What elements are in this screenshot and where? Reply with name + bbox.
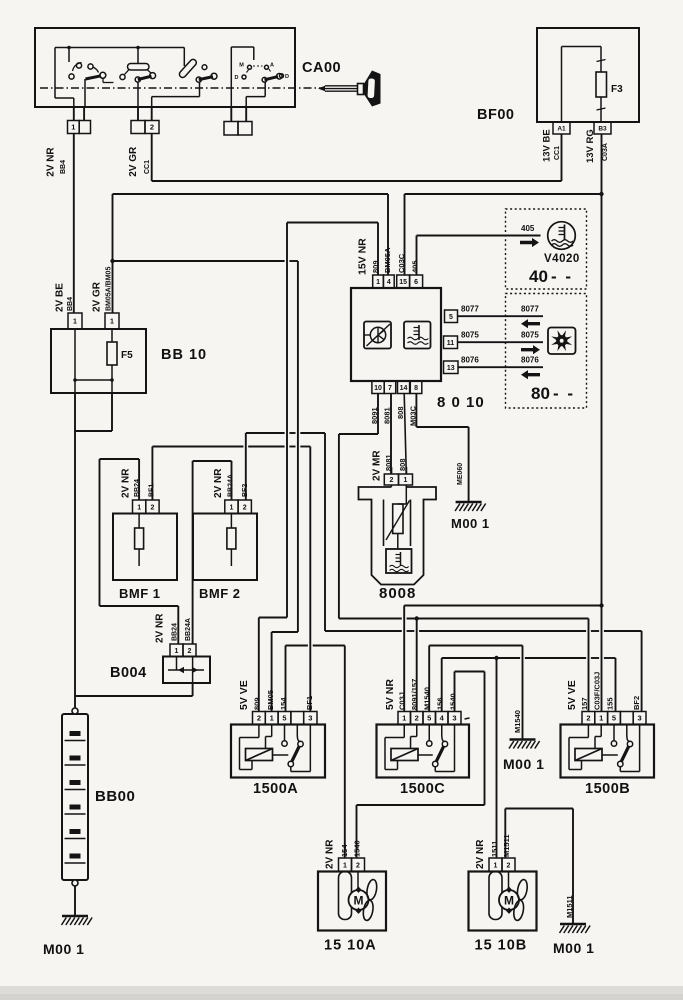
svg-text:1: 1	[73, 319, 77, 326]
svg-text:15 10A: 15 10A	[324, 938, 377, 954]
svg-text:5: 5	[612, 714, 616, 723]
svg-text:2: 2	[188, 648, 192, 655]
svg-text:2: 2	[586, 714, 590, 723]
svg-text:809: 809	[371, 260, 380, 273]
svg-text:1: 1	[229, 504, 233, 511]
svg-text:B004: B004	[110, 665, 147, 681]
svg-text:2V NR: 2V NR	[325, 839, 336, 869]
svg-text:M1540: M1540	[423, 687, 432, 710]
svg-text:M00 1: M00 1	[43, 941, 84, 957]
svg-text:1: 1	[343, 862, 347, 869]
svg-text:C03J: C03J	[398, 692, 407, 710]
svg-text:5V NR: 5V NR	[384, 679, 396, 710]
svg-text:C03C: C03C	[397, 253, 406, 273]
svg-text:7: 7	[388, 385, 392, 392]
svg-text:40: 40	[529, 267, 548, 286]
svg-text:8008: 8008	[379, 585, 416, 602]
svg-text:M: M	[239, 63, 244, 69]
svg-text:BB4: BB4	[67, 297, 74, 311]
svg-text:405: 405	[411, 260, 420, 273]
svg-text:BB24A: BB24A	[185, 618, 192, 641]
svg-text:- -: - -	[551, 267, 573, 286]
svg-text:C03A: C03A	[602, 143, 609, 161]
svg-text:2V GR: 2V GR	[92, 281, 103, 312]
svg-text:155: 155	[606, 697, 615, 710]
svg-text:1: 1	[137, 504, 141, 511]
svg-text:1: 1	[71, 123, 75, 132]
svg-text:M1511: M1511	[565, 895, 574, 918]
svg-text:1: 1	[110, 319, 114, 326]
svg-text:D: D	[235, 75, 239, 81]
svg-text:8075: 8075	[521, 331, 539, 340]
svg-text:F3: F3	[611, 84, 623, 95]
svg-text:1: 1	[404, 477, 408, 484]
svg-text:1500C: 1500C	[400, 781, 445, 797]
svg-text:5: 5	[449, 314, 453, 321]
svg-text:2V NR: 2V NR	[46, 147, 57, 177]
svg-text:1: 1	[270, 714, 274, 723]
svg-text:2V NR: 2V NR	[475, 839, 486, 869]
svg-text:BB4: BB4	[60, 160, 67, 174]
svg-text:1: 1	[376, 279, 380, 286]
svg-text:3: 3	[638, 714, 642, 723]
svg-text:2: 2	[257, 714, 261, 723]
svg-text:BM05A/BM05: BM05A/BM05	[106, 267, 113, 311]
svg-text:5V VE: 5V VE	[566, 680, 578, 710]
svg-text:CA00: CA00	[302, 60, 341, 76]
svg-text:BF00: BF00	[477, 107, 514, 123]
svg-text:M1540: M1540	[513, 710, 522, 733]
svg-text:BM05: BM05	[266, 690, 275, 710]
svg-text:M00 1: M00 1	[451, 516, 490, 531]
svg-text:2V NR: 2V NR	[155, 613, 166, 643]
svg-text:BB24: BB24	[171, 623, 178, 641]
svg-text:2: 2	[356, 862, 360, 869]
svg-text:1: 1	[494, 862, 498, 869]
svg-text:2V MR: 2V MR	[372, 450, 383, 481]
svg-text:2: 2	[150, 123, 154, 132]
svg-text:5V VE: 5V VE	[238, 680, 250, 710]
svg-text:M1511: M1511	[502, 834, 511, 857]
svg-text:5: 5	[427, 714, 431, 723]
svg-text:15: 15	[399, 279, 407, 286]
svg-text:2V BE: 2V BE	[55, 283, 66, 312]
svg-text:8076: 8076	[521, 356, 539, 365]
svg-text:1500B: 1500B	[585, 781, 630, 797]
svg-text:11: 11	[447, 340, 455, 347]
svg-text:154: 154	[279, 697, 288, 710]
svg-text:C03F/C03J: C03F/C03J	[593, 672, 602, 710]
svg-text:M00 1: M00 1	[503, 756, 544, 772]
svg-text:10: 10	[374, 385, 382, 392]
svg-text:A1: A1	[557, 125, 566, 132]
svg-text:2: 2	[415, 714, 419, 723]
svg-text:2V GR: 2V GR	[128, 146, 139, 177]
svg-text:M00 1: M00 1	[553, 940, 594, 956]
svg-text:BMF 1: BMF 1	[119, 586, 161, 601]
svg-text:1511: 1511	[490, 841, 499, 857]
svg-text:BF1: BF1	[305, 696, 314, 710]
svg-text:8075: 8075	[461, 331, 479, 340]
svg-text:D: D	[285, 74, 289, 80]
svg-text:ME060: ME060	[457, 463, 464, 485]
svg-text:2: 2	[389, 477, 393, 484]
svg-text:13V BE: 13V BE	[541, 129, 552, 162]
svg-text:2: 2	[243, 504, 247, 511]
svg-text:2V NR: 2V NR	[121, 468, 132, 498]
svg-text:BMF 2: BMF 2	[199, 586, 241, 601]
svg-text:8091/157: 8091/157	[410, 679, 419, 710]
svg-text:2: 2	[507, 862, 511, 869]
svg-text:8076: 8076	[461, 356, 479, 365]
svg-text:14: 14	[400, 385, 408, 392]
svg-text:13: 13	[447, 365, 455, 372]
svg-text:3: 3	[452, 714, 456, 723]
svg-text:B3: B3	[598, 125, 607, 132]
svg-text:M: M	[504, 894, 514, 908]
svg-text:1500A: 1500A	[253, 781, 298, 797]
svg-text:BB00: BB00	[95, 788, 135, 805]
svg-text:CC1: CC1	[144, 160, 151, 174]
svg-text:15V NR: 15V NR	[356, 238, 368, 275]
svg-text:154: 154	[340, 844, 349, 857]
svg-text:1: 1	[175, 648, 179, 655]
svg-text:5: 5	[282, 714, 286, 723]
svg-text:8077: 8077	[461, 305, 479, 314]
svg-text:156: 156	[436, 697, 445, 710]
svg-text:13V RG: 13V RG	[585, 129, 596, 163]
svg-text:M: M	[354, 894, 364, 908]
svg-text:1: 1	[402, 714, 406, 723]
svg-text:15 10B: 15 10B	[475, 938, 528, 954]
svg-text:- -: - -	[553, 384, 575, 403]
svg-text:1540: 1540	[353, 840, 362, 857]
svg-text:3: 3	[308, 714, 312, 723]
svg-text:4: 4	[387, 279, 391, 286]
svg-text:8: 8	[414, 385, 418, 392]
svg-text:BF2: BF2	[632, 696, 641, 710]
svg-text:2V NR: 2V NR	[213, 468, 224, 498]
svg-text:80: 80	[531, 384, 550, 403]
svg-text:BM05A: BM05A	[383, 247, 392, 273]
svg-text:A: A	[270, 63, 274, 69]
svg-text:405: 405	[521, 224, 535, 233]
svg-text:8 0 10: 8 0 10	[437, 394, 485, 411]
svg-text:808: 808	[398, 458, 407, 471]
svg-text:2: 2	[150, 504, 154, 511]
svg-text:V4020: V4020	[544, 253, 580, 265]
svg-text:809: 809	[253, 697, 262, 710]
svg-text:6: 6	[414, 279, 418, 286]
svg-text:F5: F5	[121, 350, 133, 361]
svg-text:157: 157	[580, 697, 589, 710]
svg-text:8081: 8081	[384, 454, 393, 471]
svg-text:CC1: CC1	[554, 146, 561, 160]
svg-text:1540: 1540	[449, 693, 458, 710]
svg-text:1: 1	[599, 714, 603, 723]
svg-text:8077: 8077	[521, 305, 539, 314]
svg-text:BB 10: BB 10	[161, 347, 207, 363]
